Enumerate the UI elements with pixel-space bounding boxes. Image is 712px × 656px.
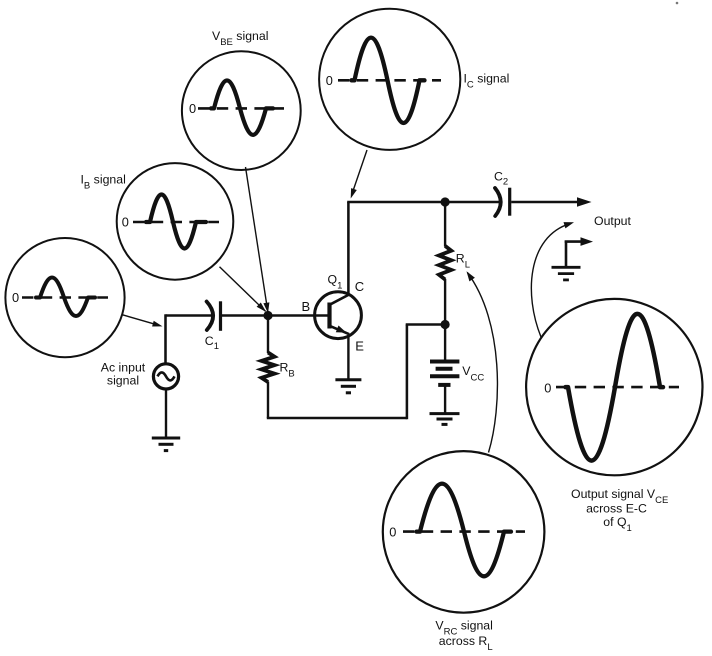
waveform bubble: IC signal [319,9,460,150]
node: collector/RL junction [441,197,450,206]
wire: riser to Vcc node [406,323,445,326]
svg-text:0: 0 [12,290,19,305]
svg-text:VCC: VCC [462,364,484,383]
svg-text:of Q1: of Q1 [603,515,632,534]
svg-text:B: B [302,299,311,314]
label VCC [462,364,484,383]
ground (emitter) [335,380,361,393]
svg-text:across E-C: across E-C [586,502,647,516]
waveform bubble: Ac input signal [5,238,124,357]
wire: input horizontal to C1 [166,314,212,317]
resistor RL [439,246,451,280]
wire: battery to ground [444,385,446,414]
label "IB signal" [81,173,126,192]
leader arrow: Ac input bubble to input wire [123,315,163,327]
wire: top rail (collector to C2) [347,201,500,204]
speck artifact top right [676,2,679,5]
svg-text:C1: C1 [205,334,219,352]
label Q1 [328,273,343,292]
capacitor C2 [495,188,510,216]
ground (battery) [430,414,460,425]
svg-text:0: 0 [326,73,333,88]
label C2 [494,170,508,188]
label RB [280,361,295,380]
output terminal arrow to ground [565,237,593,267]
waveform bubble: output VCE signal (inverted) [526,299,702,475]
wire: C1 to base [222,314,329,317]
resistor RB [262,353,275,383]
leader arrow: IB bubble to base node [220,267,267,312]
label "Output" [594,214,631,228]
svg-text:E: E [355,338,364,353]
label "VBE signal" [212,29,268,48]
wire: RL top [444,202,446,247]
capacitor C1 [207,301,221,331]
svg-text:Output: Output [594,214,631,228]
svg-text:IC signal: IC signal [464,72,510,91]
wire: input vertical to ac source [164,314,167,362]
pin label B [302,299,311,314]
wire: emitter to ground [347,336,349,381]
label "VRC signal across RL" [435,619,492,653]
label RL [456,252,470,271]
leader arrow: IC bubble to collector wire [351,150,367,199]
node: Vcc junction [441,320,450,329]
label "Output signal VCE across E-C of Q1" [571,487,668,534]
node: base junction [263,311,272,320]
ground (output terminal) [552,267,581,280]
svg-text:VBE signal: VBE signal [212,29,268,48]
transistor Q1 [315,292,362,339]
wire: bottom rail vertical riser [406,325,409,420]
curved leader arrow: VRC bubble to RL [467,271,498,452]
leader arrow: VBE bubble to base node [246,167,270,313]
waveform bubble: VRC signal [383,451,545,613]
ground (ac source) [152,438,180,451]
svg-text:IB signal: IB signal [81,173,126,192]
svg-text:RB: RB [280,361,295,380]
label C1 [205,334,219,352]
curved leader arrow: output bubble to output terminal [531,222,574,337]
ac source V1 [153,364,178,389]
svg-text:signal: signal [107,374,139,388]
waveform bubble: IB signal [117,163,234,280]
svg-text:0: 0 [189,101,196,116]
svg-text:across RL: across RL [439,634,493,653]
wire: bottom rail horizontal [267,417,407,420]
waveform bubble: VBE signal [182,51,301,170]
wire: C2 to output arrow [511,197,591,207]
battery VCC [430,362,459,385]
svg-text:C: C [355,279,364,294]
wire: collector riser [347,202,350,295]
pin label E [355,338,364,353]
label "Ac input signal" [101,361,146,388]
pin label C [355,279,364,294]
wire: Vcc node to battery [444,325,446,362]
wire: base node down to RB [267,316,269,354]
wire: RL bottom to Vcc node [444,279,446,325]
svg-text:0: 0 [544,381,551,396]
svg-text:C2: C2 [494,170,508,188]
wire: RB to bottom rail [267,382,269,419]
svg-text:0: 0 [389,524,396,539]
svg-text:0: 0 [122,215,129,230]
wire: ac source to ground [165,389,167,437]
svg-text:Ac input: Ac input [101,361,146,375]
svg-text:RL: RL [456,252,470,271]
svg-text:Q1: Q1 [328,273,343,292]
label "IC signal" [464,72,510,91]
